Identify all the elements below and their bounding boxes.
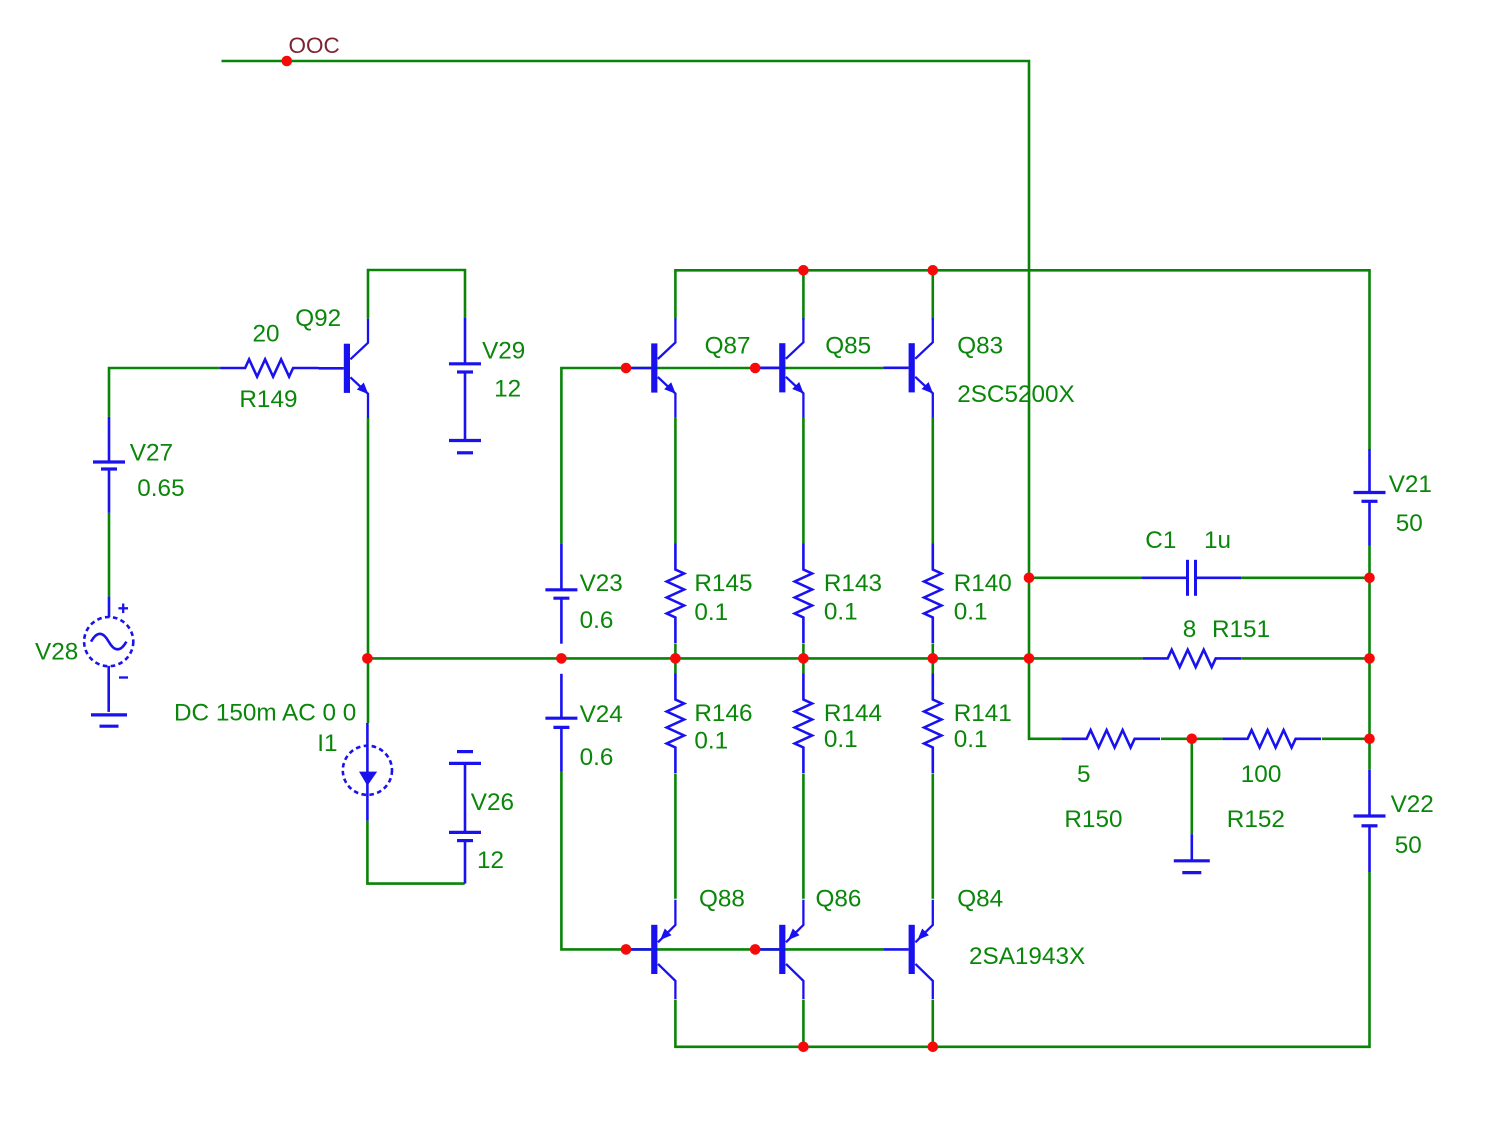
svg-text:0.1: 0.1 (694, 599, 728, 626)
transistor Q87 (626, 367, 651, 370)
svg-text:V26: V26 (471, 789, 514, 816)
voltage source V26 (449, 762, 481, 765)
junction (798, 265, 809, 276)
voltage source V22 (1368, 770, 1371, 816)
svg-text:12: 12 (494, 376, 521, 403)
wire output rail (367, 657, 1142, 660)
resistor R140 (924, 544, 941, 644)
junction (928, 653, 939, 664)
svg-text:V28: V28 (35, 639, 78, 666)
wire R144 to Q86 (802, 774, 805, 899)
resistor R146 (667, 674, 684, 774)
junction (1364, 734, 1375, 745)
svg-text:Q85: Q85 (825, 333, 871, 360)
ground at R150 (1191, 834, 1194, 861)
resistor R150 (1062, 730, 1161, 747)
svg-text:20: 20 (252, 321, 279, 348)
wire top rail (675, 270, 1369, 449)
svg-text:50: 50 (1396, 510, 1423, 537)
wire R146 to Q88 (674, 774, 677, 899)
resistor R144 (795, 674, 812, 774)
svg-text:0.6: 0.6 (580, 744, 614, 771)
wire Q92 emitter to I1 (367, 418, 370, 724)
svg-text:2SC5200X: 2SC5200X (957, 381, 1075, 408)
transistor Q88 (626, 948, 651, 951)
wire R145 to R146 (674, 644, 677, 674)
svg-text:0.1: 0.1 (824, 726, 858, 753)
wire base bus top (561, 368, 883, 544)
voltage source V24 (560, 674, 563, 718)
svg-text:R146: R146 (694, 700, 752, 727)
transistor Q86 (754, 948, 779, 951)
svg-text:Q88: Q88 (699, 886, 745, 913)
svg-text:V24: V24 (580, 701, 623, 728)
junction (928, 1042, 939, 1053)
junction (750, 363, 761, 374)
wire output rail right (1241, 657, 1369, 660)
junction (1024, 653, 1035, 664)
wire Q85 collector (802, 270, 805, 319)
svg-text:0.1: 0.1 (824, 599, 858, 626)
wire OOC rail (222, 61, 1062, 739)
junction (282, 56, 293, 67)
svg-text:R150: R150 (1064, 806, 1122, 833)
junction (928, 265, 939, 276)
junction (798, 1042, 809, 1053)
svg-text:R151: R151 (1212, 616, 1270, 643)
svg-text:R149: R149 (239, 386, 297, 413)
junction (556, 653, 567, 664)
wire ground branch (1191, 739, 1194, 834)
resistor R143 (795, 544, 812, 644)
wire bottom rail (675, 872, 1369, 1047)
junction (670, 653, 681, 664)
junction (1187, 734, 1198, 745)
svg-text:Q92: Q92 (295, 305, 341, 332)
svg-text:5: 5 (1077, 761, 1091, 788)
svg-text:V21: V21 (1389, 471, 1432, 498)
svg-text:V22: V22 (1391, 791, 1434, 818)
junction (750, 944, 761, 955)
wire Q86 collector to rail (802, 1000, 805, 1047)
wire V21 bottom column (1368, 546, 1371, 770)
wire V27 to R149 (109, 368, 220, 417)
voltage source V21 (1368, 449, 1371, 493)
svg-text:Q84: Q84 (957, 886, 1003, 913)
svg-text:R144: R144 (824, 700, 882, 727)
svg-text:R141: R141 (954, 700, 1012, 727)
wire C1 right (1241, 576, 1369, 579)
resistor R151 (1143, 650, 1242, 667)
svg-text:0.65: 0.65 (137, 475, 184, 502)
svg-text:0.1: 0.1 (954, 726, 988, 753)
junction (362, 653, 373, 664)
junction (1364, 653, 1375, 664)
wire base bus bottom (561, 772, 883, 950)
resistor R145 (667, 544, 684, 644)
transistor Q85 (754, 366, 779, 369)
junction (621, 363, 632, 374)
wire Q83 emitter to R140 (931, 418, 934, 544)
capacitor C1 (1141, 576, 1187, 579)
wire Q84 collector to rail (931, 1000, 934, 1047)
wire R150 to R152 (1161, 737, 1223, 740)
svg-text:50: 50 (1395, 832, 1422, 859)
transistor Q92 (319, 367, 344, 370)
wire R143 to R144 (802, 644, 805, 674)
wire I1 to V26 (367, 821, 464, 884)
svg-text:Q86: Q86 (816, 886, 862, 913)
wire R140 to R141 (931, 644, 934, 674)
voltage source V29 (464, 318, 467, 364)
svg-text:100: 100 (1241, 761, 1282, 788)
svg-text:Q83: Q83 (957, 333, 1003, 360)
AC source V28 (84, 597, 133, 712)
svg-text:R152: R152 (1227, 806, 1285, 833)
svg-text:0.6: 0.6 (580, 607, 614, 634)
svg-text:R140: R140 (954, 570, 1012, 597)
svg-text:2SA1943X: 2SA1943X (969, 943, 1085, 970)
voltage source V23 (560, 544, 563, 590)
junction (1024, 573, 1035, 584)
svg-text:I1: I1 (317, 730, 337, 757)
resistor R152 (1223, 730, 1322, 747)
transistor Q84 (883, 948, 908, 951)
svg-text:OOC: OOC (289, 33, 340, 58)
svg-text:V29: V29 (482, 337, 525, 364)
wire R141 to Q84 (931, 774, 934, 899)
svg-text:8: 8 (1183, 616, 1197, 643)
svg-text:1u: 1u (1204, 527, 1231, 554)
svg-text:V27: V27 (130, 440, 173, 467)
resistor R141 (924, 674, 941, 774)
svg-text:12: 12 (477, 847, 504, 874)
svg-text:0.1: 0.1 (694, 727, 728, 754)
junction (798, 653, 809, 664)
wire R152 right (1322, 737, 1370, 740)
svg-text:V23: V23 (580, 570, 623, 597)
junction (1364, 573, 1375, 584)
wire V27 to V28 (108, 513, 111, 597)
current source I1 (343, 723, 392, 821)
svg-text:C1: C1 (1145, 527, 1176, 554)
wire C1 left (1029, 576, 1141, 579)
wire Q85 emitter to R143 (802, 418, 805, 544)
transistor Q83 (883, 366, 908, 369)
wire Q92 collector to V29 (368, 270, 465, 319)
voltage source V27 (108, 417, 111, 462)
wire Q87 emitter to R145 (674, 418, 677, 544)
svg-text:0.1: 0.1 (954, 599, 988, 626)
svg-text:DC 150m AC 0 0: DC 150m AC 0 0 (174, 700, 356, 727)
wire Q83 collector (931, 270, 934, 319)
resistor R149 (220, 359, 319, 376)
svg-text:R145: R145 (694, 570, 752, 597)
ground at V28 (91, 713, 127, 716)
svg-text:R143: R143 (824, 570, 882, 597)
svg-text:Q87: Q87 (705, 333, 751, 360)
junction (621, 944, 632, 955)
